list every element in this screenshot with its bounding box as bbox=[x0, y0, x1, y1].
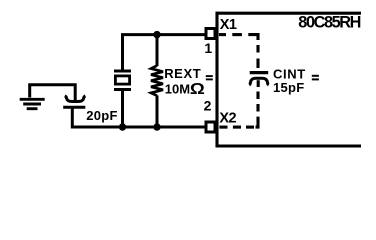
svg-text:10M: 10M bbox=[165, 82, 190, 97]
svg-text:X1: X1 bbox=[220, 17, 237, 33]
crystal Y1 bottom plate bbox=[114, 88, 131, 91]
capacitor label equals sign top bar bbox=[312, 75, 319, 77]
dashed wire CINT to X2: horizontal dash 3 bbox=[246, 126, 254, 129]
svg-text:80C85RH: 80C85RH bbox=[298, 14, 360, 32]
svg-text:REXT: REXT bbox=[164, 66, 201, 81]
dashed wire vertical dash b bbox=[256, 59, 259, 69]
dashed wire CINT to X2: horizontal dash 5 bbox=[219, 126, 227, 129]
resistor REXT zigzag body bbox=[151, 66, 163, 96]
ground symbol bar 2 bbox=[23, 103, 41, 106]
chip outline U1 (80C85RH) top edge bbox=[216, 12, 362, 15]
dashed wire below CINT: dash d bbox=[256, 104, 259, 112]
capacitor label equals sign bottom bar bbox=[312, 78, 319, 80]
ground symbol bar 1 bbox=[20, 98, 45, 101]
node: junction dot top (REXT top) bbox=[153, 31, 160, 38]
chip outline bottom edge bbox=[216, 144, 362, 147]
ground wire from GND to 20pF bbox=[30, 85, 75, 103]
dashed wire X1 to CINT: horizontal dash 2 bbox=[232, 33, 242, 36]
resistor REXT bottom lead bbox=[156, 95, 159, 127]
svg-text:X2: X2 bbox=[219, 111, 236, 127]
capacitor CINT curved bottom plate bbox=[249, 78, 269, 85]
wire: bottom net from 20pF corner to X2 pin bbox=[72, 108, 204, 127]
crystal Y1 body rectangle bbox=[115, 76, 129, 84]
ground symbol bar 3 bbox=[27, 107, 38, 110]
node: junction dot bottom REXT bbox=[153, 123, 160, 130]
resistor REXT top lead bbox=[156, 35, 159, 66]
pin box X1 bbox=[206, 29, 215, 39]
crystal Y1 top plate bbox=[114, 70, 131, 73]
pin box X2 bbox=[206, 122, 215, 132]
crystal Y1 bottom lead bbox=[121, 90, 124, 128]
svg-text:Ω: Ω bbox=[190, 81, 205, 98]
svg-text:15pF: 15pF bbox=[273, 80, 305, 95]
dashed wire below CINT: dash c2 bbox=[256, 92, 259, 100]
resistor label equals sign bottom bar bbox=[206, 78, 213, 80]
chip outline left edge bbox=[215, 12, 218, 148]
dashed wire vertical dash a bbox=[256, 45, 259, 53]
node: junction dot bottom crystal bbox=[119, 123, 126, 130]
dashed wire X1 to CINT: horizontal dash 1 bbox=[219, 33, 226, 36]
capacitor C1 20pF curved top plate bbox=[65, 96, 86, 102]
capacitor C1 20pF straight bottom plate bbox=[63, 106, 85, 109]
capacitor CINT straight top plate bbox=[250, 71, 269, 74]
crystal Y1 top lead bbox=[121, 36, 124, 71]
dashed wire below CINT: corner dash bbox=[256, 117, 259, 128]
dashed wire X1 to CINT: corner dash bbox=[248, 35, 258, 40]
dashed wire below CINT: dash c bbox=[257, 80, 260, 87]
wire: top net from crystal corner to X1 pin bbox=[123, 35, 205, 71]
dashed wire CINT to X2: horizontal dash 4 bbox=[233, 126, 241, 129]
svg-text:20pF: 20pF bbox=[86, 108, 118, 123]
svg-text:2: 2 bbox=[204, 98, 212, 114]
svg-text:1: 1 bbox=[204, 40, 212, 56]
resistor label equals sign top bar bbox=[206, 75, 213, 77]
